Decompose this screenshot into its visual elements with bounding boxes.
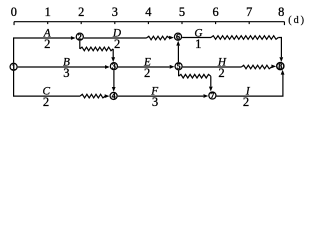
- arrowhead dummy 3-4 into node 4: [112, 87, 116, 92]
- time scale left end tick: [13, 22, 15, 25]
- node 6: [174, 32, 181, 41]
- activity H arrow line 5-8 solid part: [183, 66, 242, 68]
- arrowhead dummy 5-7 into node 7: [209, 87, 213, 92]
- svg-text:3: 3: [112, 62, 116, 71]
- activity H free float wavy: [241, 65, 271, 69]
- node 7: [209, 91, 216, 100]
- svg-text:7: 7: [246, 5, 252, 19]
- activity F arrow line 4-7: [118, 95, 204, 97]
- activity I arrow line 7-8: [217, 75, 283, 97]
- arrowhead C into node 4: [105, 94, 110, 98]
- node 8: [277, 62, 284, 71]
- arrowhead I into node 8 bottom: [281, 70, 285, 75]
- svg-text:8: 8: [278, 5, 284, 19]
- dummy 2-3 vertical drop from node 2: [79, 41, 81, 49]
- svg-text:3: 3: [112, 5, 118, 19]
- svg-text:5: 5: [177, 62, 181, 71]
- arrowhead E into node 5: [170, 65, 175, 69]
- arrowhead G into node 8 top: [279, 57, 283, 62]
- dummy 5-7 free float wavy: [179, 74, 211, 78]
- dummy 5-6 arrow stem upward: [177, 46, 179, 63]
- svg-text:2: 2: [218, 66, 224, 80]
- svg-text:1: 1: [12, 63, 16, 72]
- svg-text:5: 5: [179, 5, 185, 19]
- arrowhead dummy 2-3 into node 3: [111, 57, 115, 62]
- svg-text:2: 2: [43, 95, 49, 109]
- arrowhead H into node 8 left: [271, 65, 276, 69]
- node 3: [110, 62, 117, 71]
- node 4: [110, 92, 117, 101]
- svg-text:4: 4: [112, 92, 116, 101]
- arrowhead F into node 7: [204, 94, 209, 98]
- activity B arrow line 1-3: [18, 66, 105, 68]
- time scale tick 5: [181, 22, 183, 24]
- activity E arrow line 3-5: [118, 66, 170, 68]
- svg-text:0: 0: [11, 5, 17, 19]
- svg-text:2: 2: [78, 5, 84, 19]
- time scale tick 1: [47, 22, 49, 24]
- svg-text:2: 2: [44, 37, 50, 51]
- svg-text:2: 2: [78, 32, 82, 41]
- svg-text:1: 1: [45, 5, 51, 19]
- arrowhead D into node 6: [169, 36, 174, 40]
- svg-text:2: 2: [114, 37, 120, 51]
- dummy 2-3 free float wavy: [80, 47, 113, 51]
- time scale tick 4: [147, 22, 149, 24]
- activity D arrow line 2-6 solid part: [84, 37, 147, 39]
- arrowhead B into node 3: [105, 65, 110, 69]
- svg-text:3: 3: [63, 66, 69, 80]
- time scale right end tick: [283, 22, 285, 25]
- activity C arrow line 1-4 solid part: [14, 71, 80, 96]
- time scale tick 6: [215, 22, 217, 24]
- time scale tick 3: [114, 22, 116, 24]
- dummy 3-4 arrow stem: [113, 70, 115, 87]
- activity G free float wavy: [211, 36, 278, 40]
- svg-text:8: 8: [278, 62, 282, 71]
- node 5: [175, 62, 182, 71]
- svg-text:3: 3: [152, 95, 158, 109]
- time scale tick 7: [248, 22, 250, 24]
- svg-text:2: 2: [144, 66, 150, 80]
- activity A arrow line 1-2: [14, 38, 71, 63]
- svg-text:6: 6: [212, 5, 218, 19]
- svg-text:6: 6: [176, 32, 180, 41]
- svg-text:1: 1: [195, 37, 201, 51]
- dummy 2-3 arrow stem into node 3: [112, 49, 114, 58]
- time scale tick 2: [80, 22, 82, 24]
- arrowhead dummy 5-6 into node 6: [176, 41, 180, 46]
- node 1: [10, 63, 17, 72]
- dummy 5-7 vertical drop from node 5: [178, 70, 180, 76]
- svg-text:2: 2: [243, 95, 249, 109]
- activity G arrow line 6-8 solid part: [182, 37, 211, 39]
- activity C free float wavy: [80, 94, 105, 98]
- activity G corner and drop into node 8: [278, 38, 281, 58]
- time scale axis line: [14, 21, 285, 23]
- node 2: [76, 32, 83, 41]
- svg-text:4: 4: [145, 5, 151, 19]
- arrowhead A into node 2: [71, 36, 76, 40]
- svg-text:7: 7: [210, 91, 214, 100]
- activity D free float wavy: [147, 36, 170, 40]
- svg-text:(d): (d): [288, 15, 306, 26]
- dummy 5-7 arrow stem into node 7: [210, 76, 212, 86]
